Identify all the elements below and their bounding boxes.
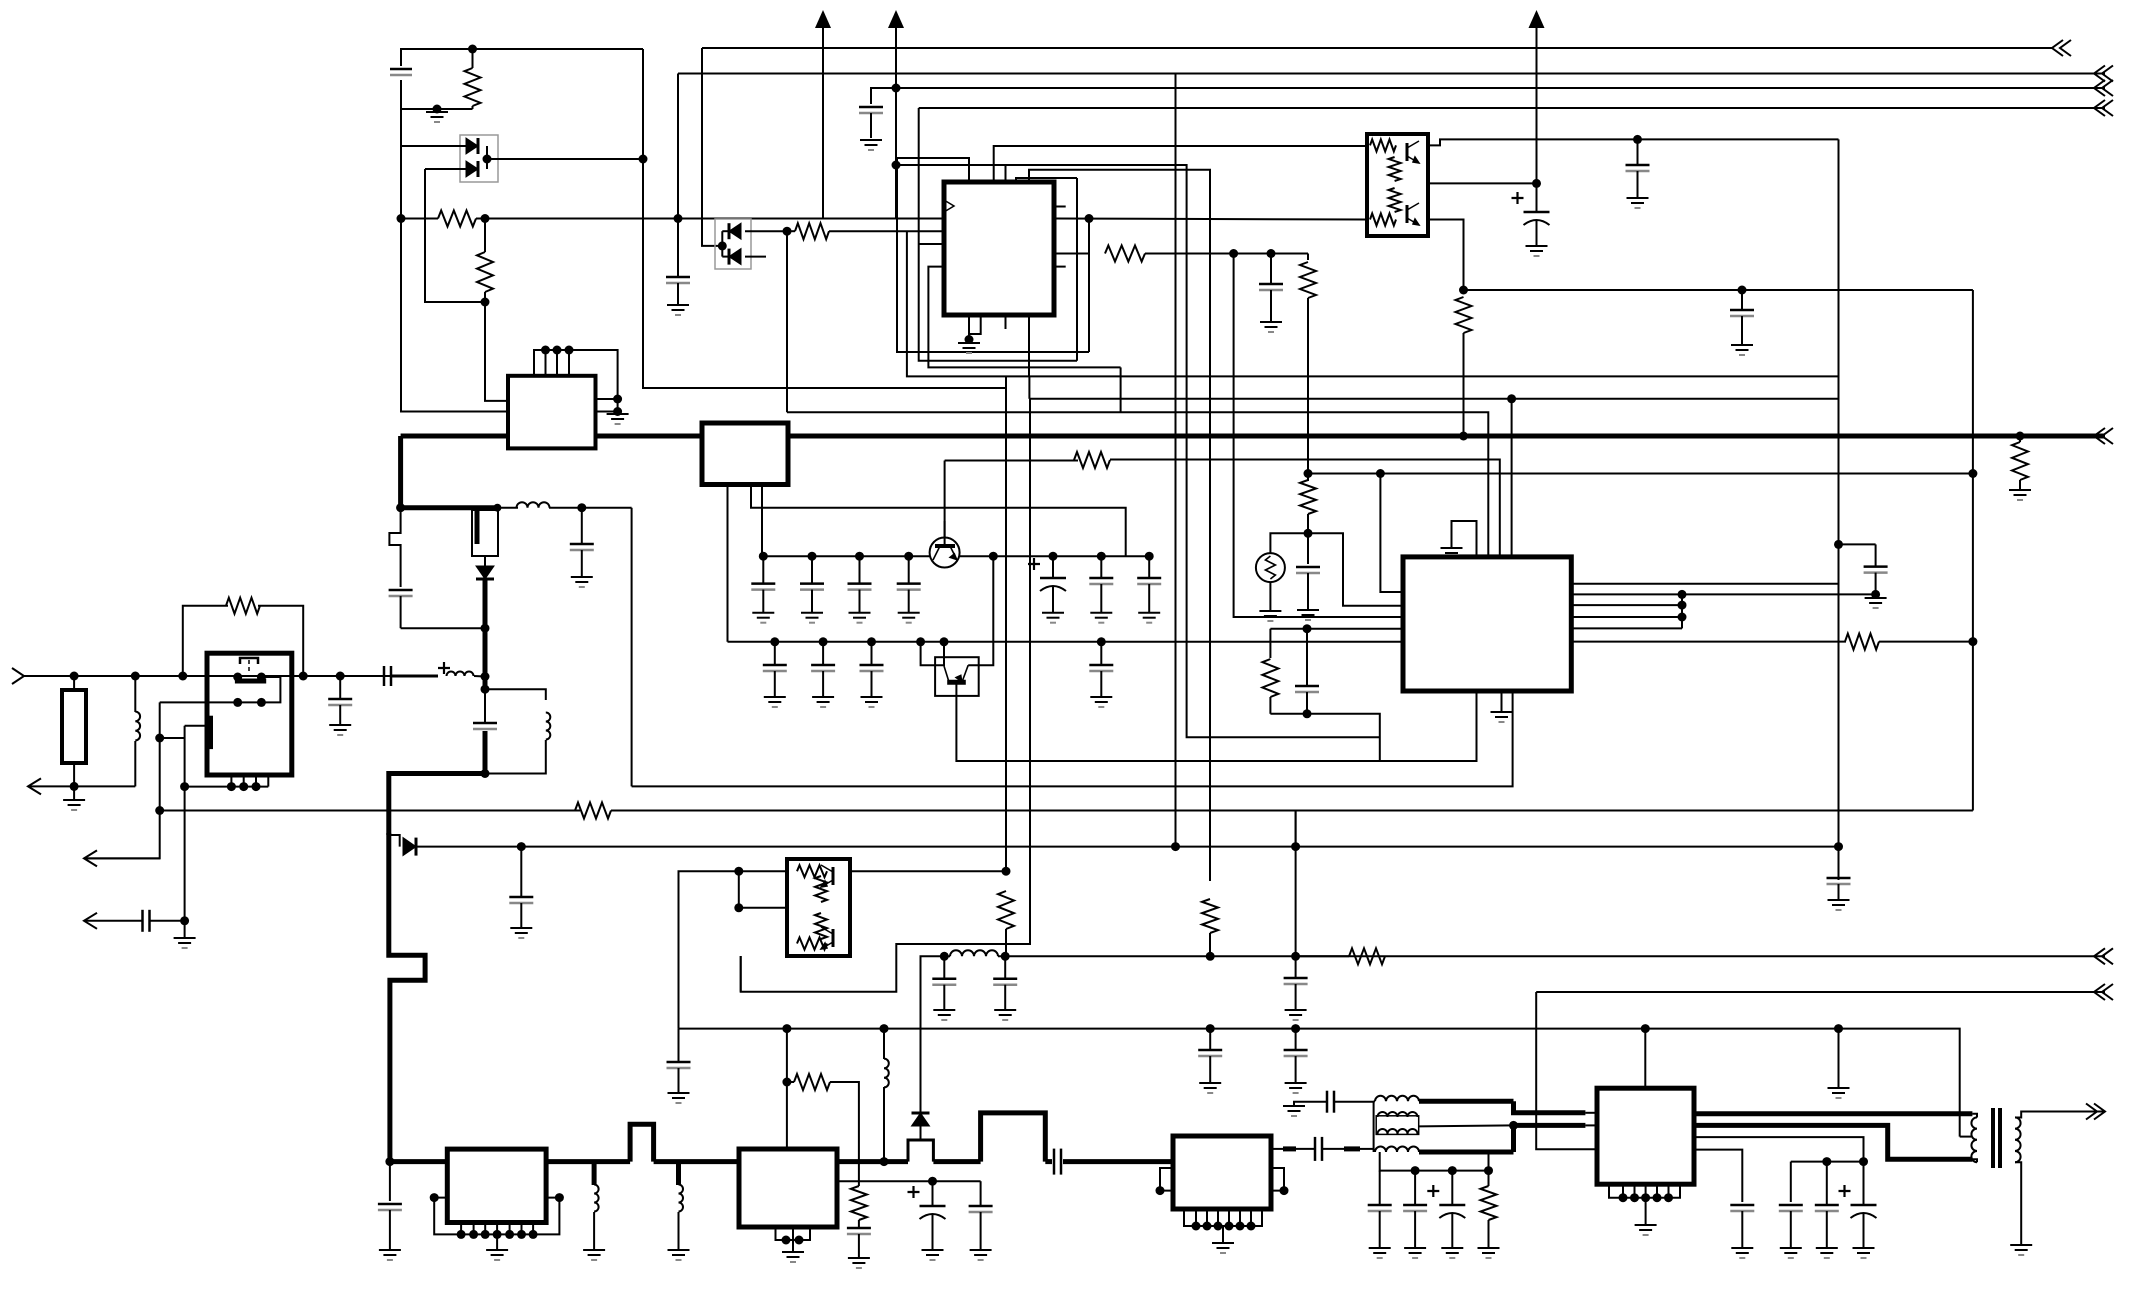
- ground Gr22: [861, 697, 883, 707]
- U7 pin 2: [473, 1223, 475, 1235]
- U9 gnd pin: [1222, 1226, 1224, 1243]
- junction x184 pins: [180, 782, 189, 791]
- relay contacts bottom: [233, 698, 266, 707]
- capacitor C25: [1089, 556, 1113, 613]
- ground G10: [379, 1250, 401, 1260]
- IC U4 transistor pair: [787, 859, 850, 956]
- wire through relay: [207, 675, 292, 677]
- IC U8: [739, 1149, 837, 1227]
- resistor R12: [1074, 452, 1110, 468]
- U9 out thick2: [1283, 1146, 1296, 1151]
- resistor R4: [1105, 246, 1145, 262]
- junction y846 x1175: [1171, 842, 1180, 851]
- junction P2 y165: [892, 161, 901, 170]
- U9 bracket dot L: [1156, 1186, 1165, 1195]
- wire D4 vert: [920, 1112, 922, 1113]
- thick to left: [389, 774, 485, 836]
- stub L6: [676, 1162, 681, 1185]
- junction P2 L3: [892, 84, 901, 93]
- wire vertical x1030 low: [741, 399, 1030, 992]
- IC U7: [447, 1149, 546, 1222]
- wire y165: [896, 165, 1380, 737]
- ground G11: [571, 577, 593, 587]
- ground G27: [1627, 198, 1649, 208]
- U8 pin g: [792, 1227, 794, 1240]
- IC U5: [1403, 557, 1571, 691]
- diode D2: [476, 566, 494, 579]
- L10 out thick: [1419, 1150, 1514, 1155]
- T1 center tap: [1960, 1136, 1971, 1138]
- ground G16: [994, 1010, 1016, 1020]
- capacitor C40: [509, 847, 533, 928]
- capacitor C58 electrolytic: [1427, 1171, 1465, 1248]
- wire R30 leads: [787, 230, 795, 232]
- diode pack DP1 outline: [460, 135, 498, 182]
- U7 pin 5: [509, 1223, 511, 1235]
- U10 pin b2: [1634, 1184, 1636, 1198]
- wire chain x1308 mid: [1307, 298, 1309, 481]
- U8 pin dots: [782, 1236, 804, 1245]
- wire U8 pin2: [837, 1180, 981, 1182]
- ground G30: [583, 1250, 605, 1260]
- resistor R13 U4: [797, 865, 827, 877]
- wire DP2 bot lead: [722, 256, 728, 258]
- L8 out thick: [1419, 1099, 1514, 1104]
- resistor R17: [998, 891, 1014, 929]
- bus drop left: [398, 436, 403, 508]
- wire Q3 bottom: [956, 682, 1476, 761]
- ground G37: [1212, 1243, 1234, 1253]
- stub L6 low: [678, 1212, 680, 1250]
- inductor L9a: [1378, 1112, 1418, 1117]
- junction U4 out: [1002, 867, 1011, 876]
- U8 bracket: [776, 1227, 811, 1240]
- IC U9: [1173, 1136, 1271, 1209]
- capacitor C32 row2: [860, 642, 884, 697]
- wire top-left top: [401, 49, 643, 66]
- wire gnd drop x1838: [1838, 1029, 1840, 1088]
- wire TL2 loop: [740, 956, 742, 992]
- junction L9-L10: [1509, 1121, 1518, 1130]
- wire top pin a: [897, 158, 969, 182]
- junction step join: [481, 624, 490, 633]
- port L2: [2094, 66, 2113, 82]
- junction row1 right caps: [1049, 552, 1154, 561]
- ground G39: [1369, 1248, 1391, 1258]
- ground G42: [1478, 1248, 1500, 1258]
- ground G7: [1259, 611, 1281, 621]
- wire tank loop: [485, 689, 546, 700]
- power rail arrow P1: [815, 10, 831, 219]
- wire ind leads: [944, 955, 950, 957]
- ground G4: [958, 343, 980, 353]
- wire row1: [762, 555, 930, 557]
- wire vertical x1006: [1005, 376, 1007, 871]
- junction U8 res: [782, 1078, 791, 1087]
- wire x1120 riser: [1120, 367, 1122, 412]
- ground G28: [1828, 900, 1850, 910]
- U10 pin b5: [1668, 1184, 1670, 1198]
- capacitor C21 row1: [800, 556, 824, 613]
- wire nest bottom 3: [928, 267, 1120, 368]
- bus2 d: [837, 1159, 908, 1164]
- U9 to coils: [1360, 1148, 1374, 1150]
- port L1: [2052, 40, 2071, 56]
- capacitor C56: [1368, 1171, 1392, 1248]
- relay pin dots: [227, 782, 261, 791]
- capacitor C24 electrolytic: [1028, 556, 1066, 613]
- wire R3 bottom: [485, 292, 508, 401]
- inductor L7: [884, 1059, 889, 1088]
- transistor Q3: [944, 665, 968, 682]
- ground G2: [667, 305, 689, 315]
- wire net L2: [677, 74, 679, 219]
- wire net L1: [702, 47, 2052, 49]
- wire TL2 feed: [679, 871, 739, 1028]
- U10 pin b4: [1656, 1184, 1658, 1198]
- wire R28 low: [1488, 1220, 1490, 1248]
- stub L5: [592, 1162, 597, 1185]
- junction ground: [433, 105, 442, 114]
- junction loop left: [178, 672, 187, 681]
- ground G36: [970, 1250, 992, 1260]
- wire IC1 right pin 206: [1054, 206, 1066, 208]
- junction y956 R: [1206, 952, 1215, 961]
- junction IC2 pins right: [1678, 590, 1687, 622]
- capacitor C23 row1: [897, 556, 921, 613]
- wire U8 top pin: [786, 1029, 788, 1149]
- capacitor C61: [1815, 1162, 1839, 1248]
- wire below bus2: [389, 1162, 391, 1201]
- capacitor C31 row2: [811, 642, 835, 697]
- junction LM right1: [613, 395, 622, 404]
- diode pack DP2 outline: [715, 219, 751, 269]
- net arrow A1: [28, 778, 135, 794]
- resistor R10: [226, 598, 260, 614]
- wire y956 mid: [1296, 955, 1349, 957]
- inductor Lt: [546, 713, 551, 740]
- capacitor C6: [1295, 686, 1319, 714]
- junction R4 x1271: [1267, 249, 1276, 258]
- capacitor C5: [1296, 567, 1320, 610]
- U10 out B: [1694, 1125, 1972, 1159]
- junction LM top: [541, 346, 574, 355]
- wire Q3 collector: [968, 556, 993, 665]
- capacitor C1: [390, 69, 412, 75]
- junction y218 x678: [674, 214, 683, 223]
- capacitor C4: [1259, 254, 1283, 323]
- junction ind left: [940, 952, 949, 961]
- ground G46: [1853, 1248, 1875, 1258]
- bus2 f: [1045, 1159, 1052, 1164]
- wire IC2 gnd bracket: [1452, 521, 1477, 557]
- wire L2 corner drop: [1175, 74, 1177, 847]
- capacitor C45 electrolytic: [1512, 183, 1550, 246]
- wire nest bottom 2: [919, 243, 944, 245]
- wire loop: [183, 606, 228, 676]
- U9 pin 2: [1206, 1209, 1208, 1226]
- power rail arrow P3: [1529, 10, 1545, 183]
- relay contacts top: [233, 673, 266, 682]
- junction DP1 out: [483, 155, 492, 164]
- wire vertical x643: [643, 49, 1007, 388]
- bus fuse top: [401, 505, 498, 510]
- resistor R1: [465, 68, 481, 106]
- capacitor C26: [1137, 556, 1161, 613]
- U7 pin 1: [460, 1223, 462, 1235]
- wire L1 drop: [702, 48, 722, 246]
- wire IC2 right 594: [1571, 593, 1875, 595]
- wire R26 out: [830, 1082, 859, 1186]
- wire RC bottom: [1270, 714, 1379, 761]
- junction x184 cap: [180, 916, 189, 925]
- U10 pin1 stub: [1585, 1112, 1597, 1114]
- bus2 pulse1: [630, 1124, 654, 1161]
- U9 bracket dot R: [1280, 1186, 1289, 1195]
- rail dots: [1411, 1166, 1493, 1175]
- capacitor C38: [1198, 1029, 1222, 1083]
- wire y398 line: [1029, 398, 1838, 400]
- wire IC1 right pin 218: [1054, 219, 1367, 220]
- wire top pin e: [1029, 170, 1210, 881]
- resistor R30: [795, 223, 829, 239]
- wire net y811 b: [611, 810, 1973, 812]
- capacitor C7: [473, 723, 497, 729]
- junction y846 cap: [517, 842, 526, 851]
- inductor L9b: [1378, 1129, 1418, 1134]
- bus2 b: [546, 1159, 630, 1164]
- capacitor C44: [1827, 847, 1851, 900]
- wire gnd chain: [1294, 1102, 1327, 1106]
- wire R28 top: [1488, 1171, 1490, 1186]
- junction y290 cap: [1738, 286, 1747, 295]
- wire x184 gnd: [184, 921, 186, 938]
- U7 bracket dots: [430, 1193, 564, 1202]
- transistor Q5a: [1407, 141, 1419, 163]
- wire net y290: [1464, 289, 1973, 291]
- wire fuse to diode: [484, 556, 486, 566]
- resistor R8: [2012, 442, 2028, 480]
- ground G45: [1816, 1248, 1838, 1258]
- ground G41: [1441, 1248, 1463, 1258]
- U7 pin 7: [532, 1223, 534, 1235]
- ground G22: [510, 928, 532, 938]
- junction input R: [70, 672, 79, 681]
- thin tank cap lead: [484, 689, 486, 723]
- junction Q2 collector: [989, 552, 998, 561]
- fuse F1: [472, 508, 498, 556]
- junction fuse node: [396, 503, 405, 512]
- wire IC1 bottom pin b: [969, 315, 981, 334]
- resistor R25 U6: [1370, 214, 1396, 226]
- wire IC1 bottom pin a: [968, 315, 970, 340]
- wire IC2 pin tie: [1681, 594, 1683, 628]
- junction tank bottom: [481, 769, 490, 778]
- wire IC1 left pin 218: [896, 218, 944, 220]
- resistor R14 U4: [815, 876, 827, 902]
- U10 pin3 caps: [1694, 1137, 1864, 1162]
- resistor R22 U6: [1370, 139, 1396, 151]
- ground G13: [329, 725, 351, 735]
- inductor L4: [950, 950, 998, 956]
- wire RC right vert: [1306, 629, 1308, 686]
- U9 cap out thick: [1344, 1146, 1360, 1151]
- wire top pin b: [994, 146, 1367, 182]
- wire DP1 to node: [487, 158, 643, 160]
- capacitor C41: [1864, 544, 1888, 594]
- wire DP1 in2: [425, 168, 466, 170]
- capacitor C8: [378, 1204, 402, 1250]
- wire TL2 link: [738, 871, 740, 908]
- wire DP2 top lead: [722, 230, 728, 232]
- inductor L2: [135, 712, 140, 741]
- port output: [2086, 1104, 2105, 1120]
- U10 bottom bracket: [1609, 1184, 1680, 1198]
- diode D4: [912, 1113, 930, 1126]
- wire nest right 1: [1076, 178, 1078, 361]
- U9 pin 5: [1239, 1209, 1241, 1226]
- wire nest right 2: [1088, 219, 1090, 353]
- junction DP2 anodes: [718, 241, 727, 250]
- wire IC2 right 605: [1571, 604, 1682, 606]
- junction x1308 y533: [1304, 529, 1313, 538]
- U9 out thick: [1271, 1148, 1283, 1150]
- capacitor C62 electrolytic: [1839, 1162, 1877, 1248]
- port net y992: [2094, 984, 2113, 1000]
- ground Gr16: [1138, 613, 1160, 623]
- wire x1006 low: [1005, 929, 1007, 956]
- wire R4 out: [1145, 253, 1308, 255]
- thick below cap: [483, 731, 488, 774]
- U9 pin 3: [1217, 1209, 1219, 1226]
- junction tank top: [481, 672, 490, 681]
- U7 bracket: [434, 1198, 559, 1235]
- wire LM pin3: [556, 350, 558, 376]
- U10 pin dots: [1619, 1193, 1674, 1202]
- bus main left: [401, 434, 508, 439]
- ground Gr14: [1042, 613, 1064, 623]
- ground G24: [1865, 598, 1887, 608]
- junction x159 b: [155, 806, 164, 815]
- wire LM gnd: [617, 399, 619, 414]
- inductor T1 secondary: [2015, 1117, 2021, 1162]
- capacitor C42: [1730, 290, 1754, 345]
- wire LM pin4: [568, 350, 570, 376]
- bus main mid: [596, 434, 703, 439]
- wire chain x1308 low: [1307, 514, 1309, 564]
- wire R8 gnd: [2019, 480, 2021, 490]
- junction y956 cap: [1291, 952, 1300, 961]
- wire U8 ind low: [883, 1087, 885, 1162]
- resistor R19: [1349, 948, 1385, 964]
- inductor L5: [594, 1185, 599, 1212]
- junction loop right: [299, 672, 308, 681]
- bus2 g: [1063, 1159, 1173, 1164]
- ground G8: [607, 414, 629, 424]
- clock mark U1: [944, 200, 954, 212]
- wire Q3 emitter: [943, 642, 945, 666]
- junction DP2 out: [783, 227, 792, 236]
- IC U6 transistor pair: [1367, 134, 1428, 236]
- transformer T1 core: [1993, 1108, 2000, 1168]
- wire TL2 in1: [739, 870, 787, 872]
- wire y811 drop: [1295, 811, 1297, 957]
- junction x1308 y473: [1304, 469, 1313, 478]
- wire U3 pin row1: [761, 485, 763, 557]
- capacitor C20 row1: [751, 556, 775, 613]
- ground G12: [63, 800, 85, 810]
- resistor R5: [1300, 262, 1316, 298]
- wire vertical x401: [401, 109, 508, 412]
- wire down x631: [631, 508, 633, 787]
- wire L2a top: [134, 676, 136, 712]
- capacitor C39: [1284, 1029, 1308, 1083]
- caps rail dots: [1822, 1157, 1868, 1166]
- wire net L2 horizontal: [678, 73, 2105, 75]
- junction ind right: [493, 504, 501, 512]
- cap C60 drop: [1790, 1162, 1792, 1202]
- junction bus2 start: [385, 1157, 394, 1166]
- wire IC2 top feed: [1511, 399, 1513, 557]
- thick row B: [1514, 1125, 1586, 1152]
- T1 primary top lead: [1972, 1114, 1977, 1118]
- wire after relay: [292, 675, 401, 677]
- resistor R3: [477, 252, 493, 292]
- junction x1838 cap: [1834, 540, 1843, 549]
- U10 pin b1: [1622, 1184, 1624, 1198]
- wire net y1028: [679, 1029, 1960, 1137]
- U9 pin 4: [1228, 1209, 1230, 1226]
- resistor R26: [794, 1074, 830, 1090]
- wire top-left net: [400, 80, 402, 109]
- resistor R16 U4: [797, 938, 827, 950]
- relay pin 4: [267, 775, 269, 787]
- wire RC top: [1270, 628, 1403, 630]
- wire y473 line: [1308, 473, 1973, 475]
- wire IC2 bot pin2: [1501, 691, 1503, 712]
- wire P2 cap branch: [871, 88, 896, 104]
- thick step down: [1514, 1101, 1586, 1113]
- junction pin2 cap: [928, 1177, 937, 1186]
- capacitor C34: [932, 956, 956, 1010]
- wire D4 low: [920, 1126, 922, 1140]
- wire vertical x1234: [1234, 254, 1403, 618]
- power rail arrow P2: [888, 10, 904, 219]
- resistor R18: [1202, 899, 1218, 933]
- diode D1a: [466, 138, 478, 154]
- ground G5: [1260, 322, 1282, 332]
- resistor R2: [438, 211, 476, 227]
- port bus: [2094, 428, 2113, 444]
- wire R21 low: [1463, 333, 1465, 436]
- wire LM right pin1: [596, 398, 618, 400]
- inductor T1 primary: [1971, 1117, 1977, 1162]
- ground G25: [1731, 345, 1753, 355]
- junction y473 x1380: [1376, 469, 1385, 478]
- wire x159-x184 link: [160, 737, 185, 739]
- wire IC2 pin1 feed: [1380, 474, 1403, 593]
- junction y290 left: [1459, 286, 1468, 295]
- ground Gr12: [849, 613, 871, 623]
- wire R9 top: [73, 676, 75, 690]
- ground G3: [860, 140, 882, 150]
- wire vertical x1030: [1028, 376, 1030, 398]
- wire x184 vert: [184, 726, 186, 921]
- ground G35: [922, 1250, 944, 1260]
- junction x1972 y473: [1968, 469, 1977, 478]
- IC U10: [1597, 1088, 1694, 1184]
- junction x1006 ind: [1001, 952, 1010, 961]
